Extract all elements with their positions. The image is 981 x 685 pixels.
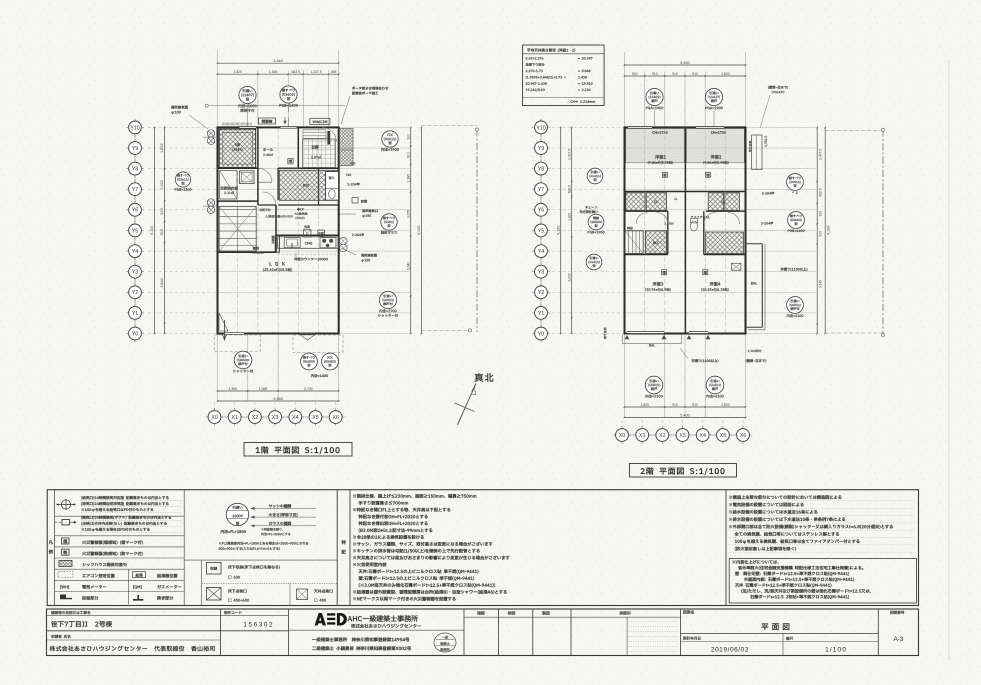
2F closet hatches [626,193,645,211]
svg-text:2,437.5: 2,437.5 [567,149,571,160]
1F caption [244,443,352,457]
1F window bubble bottom-left [234,351,252,369]
2F window bubble bottom2 [706,376,724,394]
svg-text:1,822: 1,822 [160,143,164,153]
svg-text:1,365: 1,365 [269,70,278,74]
2F bubble leaders top [654,110,656,127]
2F left segment dims [571,127,573,333]
1F LDK label [270,262,285,265]
1F outer walls [218,127,339,333]
2F site boundary line [882,130,884,335]
2F outer walls [625,127,746,333]
svg-text:Y6: Y6 [132,208,139,214]
registration stamp [434,633,456,652]
svg-text:A-3: A-3 [894,636,904,643]
2F ceiling height table [523,45,605,106]
sash legend diagram [226,503,248,525]
svg-text:3,275: 3,275 [407,210,411,219]
2F chain note [585,206,597,209]
svg-text:X0: X0 [619,433,626,439]
svg-text:3,640: 3,640 [407,262,411,271]
1F window bubble B [280,86,297,103]
svg-text:X1: X1 [231,415,238,421]
2F fire alarm marks [662,172,667,177]
legend row heat alarm [62,549,70,555]
svg-text:Y10: Y10 [536,125,546,131]
1F right margin notes [350,162,355,164]
svg-text:1/100: 1/100 [825,647,847,654]
2F wall-center note top [768,86,788,89]
svg-text:3,642: 3,642 [567,273,571,281]
svg-text:Y7: Y7 [538,187,545,193]
2F left total dim 9100 [560,127,562,333]
2F hanging-rail box [752,135,763,170]
2F window bubble right1 [787,174,804,191]
svg-text:Y7: Y7 [132,187,139,193]
svg-text:1,822: 1,822 [567,213,571,221]
2F amenity closet [706,232,744,254]
2F X grid bubbles X0-X6 [614,434,751,436]
1F vent label top-left [171,106,188,109]
2F right total dim 9100 [824,127,826,333]
svg-text:1,365: 1,365 [228,387,237,391]
svg-text:910: 910 [818,231,822,237]
svg-text:682.5: 682.5 [567,185,571,193]
1F porch hatch [340,129,354,166]
2F storage hatch [646,231,667,254]
svg-text:X2: X2 [659,433,666,439]
svg-text:1,820: 1,820 [721,403,730,407]
svg-text:Y9: Y9 [538,146,545,152]
notes tokki label [342,540,346,544]
2F top dims [624,72,626,127]
svg-text:1,820: 1,820 [721,72,730,76]
title block left texts [51,611,90,614]
2F bottom handrail notes [692,359,719,362]
2F room3 label [653,282,664,286]
svg-text:Y3: Y3 [132,270,139,276]
svg-text:1,422: 1,422 [160,180,164,190]
2F stairs [625,231,643,254]
svg-text:Y8: Y8 [132,167,139,173]
svg-text:Y5: Y5 [538,228,545,234]
2F hall label [664,222,673,224]
2F window bubble left3 [586,254,602,270]
1F right extension lines [340,126,410,128]
svg-text:Y0: Y0 [132,331,139,337]
svg-text:910: 910 [632,72,638,76]
svg-text:910: 910 [407,134,411,140]
1F bottom bubble note [311,374,328,377]
svg-text:910: 910 [407,152,411,158]
1F bottom dims [217,335,219,402]
svg-text:5,460: 5,460 [680,413,690,417]
2F top wall windows [628,126,652,128]
1F X grid bubbles X0-X6 [207,416,344,418]
2F bottom balcony outline [649,344,655,346]
svg-text:910: 910 [692,403,698,407]
1F unit bath hatch [219,129,256,168]
svg-text:9,100: 9,100 [827,226,831,236]
1F stairs [219,207,256,252]
svg-text:Y9: Y9 [132,146,139,152]
1F hall [263,148,273,151]
2F module grid [625,147,746,149]
svg-text:X1: X1 [639,433,646,439]
1F module grid [218,147,339,149]
1F datum line [207,105,345,107]
svg-text:3,640: 3,640 [818,280,822,288]
svg-text:X6: X6 [332,415,339,421]
legend row sick house [59,560,72,566]
right notes text [729,495,841,499]
svg-text:9,100: 9,100 [556,226,560,236]
2F window bubble left2 [588,214,604,230]
2F right 204 labels [762,192,774,195]
svg-text:2,437.5: 2,437.5 [818,149,822,160]
1F window bubble left [175,172,190,187]
2F window bubble right2 [788,212,805,229]
svg-text:1,365: 1,365 [259,387,268,391]
middle notes text [353,494,476,498]
right notes boxed section [729,559,916,604]
svg-text:1,385: 1,385 [407,174,411,183]
1F right segment dims [410,127,412,333]
1F top dims [217,70,219,126]
svg-text:X4: X4 [292,415,299,421]
1F left segment dims [164,127,166,333]
svg-text:Y4: Y4 [132,249,139,255]
2F room1 label [655,155,666,159]
2F window bubble bottom1 [645,376,663,394]
1F toilet [326,172,339,201]
1F window bubble FIX right [382,131,398,147]
legend row 24h vent [61,500,70,509]
svg-text:3,642: 3,642 [160,278,164,288]
2F small dim right [765,136,768,147]
legend underfloor rows [184,559,337,561]
svg-text:Y2: Y2 [538,290,545,296]
1F window bubble A [239,86,256,103]
1F kitchen counter [278,237,339,249]
2F window bubble right3 [787,297,804,314]
svg-text:Y3: Y3 [538,270,545,276]
svg-text:910: 910 [692,72,698,76]
svg-text:910: 910 [652,72,658,76]
legend row smoke alarm [62,538,70,544]
svg-text:910: 910 [818,211,822,217]
legend hanrei label [49,540,53,544]
svg-text:910: 910 [672,403,678,407]
svg-text:Y4: Y4 [538,249,545,255]
1F window bubble tatesuberi right [381,214,397,230]
svg-text:Y8: Y8 [538,167,545,173]
1F left total dim 9100 [154,127,156,333]
svg-text:9,100: 9,100 [150,226,154,236]
1F bubble leaders top [247,104,249,126]
2F balcony [761,244,763,328]
1F wall windows [240,126,257,128]
1F Y grid bubbles Y10-Y0 [134,119,136,341]
svg-text:X6: X6 [740,433,747,439]
2F bottom dims [624,335,626,418]
svg-text:X5: X5 [312,415,319,421]
title block right texts [683,610,694,614]
2F toilet [690,221,697,231]
2F caption [630,464,737,478]
2F right segment dims [816,127,818,333]
title block frame [47,609,919,656]
title block middle headers [477,611,484,615]
svg-text:2019/06/02: 2019/06/02 [711,647,749,654]
1F window bubble bottom-mid2 [322,353,339,370]
1F bottom terrace outlines [214,335,260,352]
1F louver strip above bath [222,123,224,126]
2F window bubble left1 [587,168,603,184]
svg-text:5,460: 5,460 [680,61,690,65]
architect office texts [348,615,418,622]
2F closet door arcs [636,213,648,225]
AHC logo [315,613,347,626]
1F right total dim 9100 [421,127,423,333]
scan edge line [948,60,950,660]
1F entry [303,139,336,168]
svg-text:910: 910 [160,229,164,235]
2F sloped ceiling band [626,129,685,163]
svg-text:5,460: 5,460 [273,397,283,401]
1F corner vent arrow [219,313,228,331]
svg-text:1,137.5: 1,137.5 [310,70,321,74]
notes table frame [47,490,918,606]
north arrow [475,373,494,382]
1F site boundary line [476,130,478,333]
2F window bubble top1 [646,88,663,105]
legend row lines [54,515,184,517]
legend row aircon [58,572,73,578]
svg-text:X3: X3 [272,415,279,421]
svg-text:910: 910 [160,208,164,214]
svg-text:Y6: Y6 [538,208,545,214]
2F right extension lines [747,126,817,128]
2F bottom wall windows [627,331,664,334]
svg-text:Y1: Y1 [132,311,139,317]
svg-text:X0: X0 [211,415,218,421]
svg-text:X5: X5 [720,433,727,439]
1F interior annotations [265,215,292,218]
1F wall-type labels [259,118,276,124]
legend row duct [62,520,70,525]
1F entry shelf [303,131,326,133]
svg-text:455: 455 [331,70,337,74]
2F interior walls [684,127,686,333]
svg-text:Y5: Y5 [132,228,139,234]
svg-text:X4: X4 [699,433,706,439]
svg-text:2,730: 2,730 [304,387,313,391]
2F Y grid bubbles Y10-Y0 [540,119,542,341]
svg-text:1,820: 1,820 [233,70,242,74]
2F handrail note right [781,268,808,271]
svg-text:1 5 6 3 0 2: 1 5 6 3 0 2 [243,622,273,629]
1F interior walls [257,127,259,205]
svg-text:Y2: Y2 [132,290,139,296]
1F fire alarm mark [288,159,293,164]
svg-text:Y10: Y10 [130,125,140,131]
svg-text:9,100: 9,100 [417,226,421,236]
1F tiled DK hatch [279,170,338,200]
svg-text:910: 910 [672,72,678,76]
svg-text:Y0: Y0 [538,331,545,337]
2F room2 label [711,155,722,159]
svg-text:X2: X2 [252,415,259,421]
svg-text:Y1: Y1 [538,311,545,317]
legend row steps [60,595,72,600]
svg-text:682.5: 682.5 [292,70,301,74]
1F wall vent symbols [207,130,214,137]
svg-text:5,460: 5,460 [273,59,283,63]
1F porch note [352,87,388,90]
1F window bubble hikichigai right [379,291,396,308]
svg-text:X3: X3 [679,433,686,439]
1F window bubble bottom-mid1 [301,353,318,370]
svg-text:1,820: 1,820 [640,403,649,407]
2F window bubble top2 [705,88,722,105]
legend row meters [60,585,69,589]
1F washroom [220,171,238,200]
svg-text:682.5: 682.5 [818,188,822,196]
2F room4 label [710,282,721,286]
